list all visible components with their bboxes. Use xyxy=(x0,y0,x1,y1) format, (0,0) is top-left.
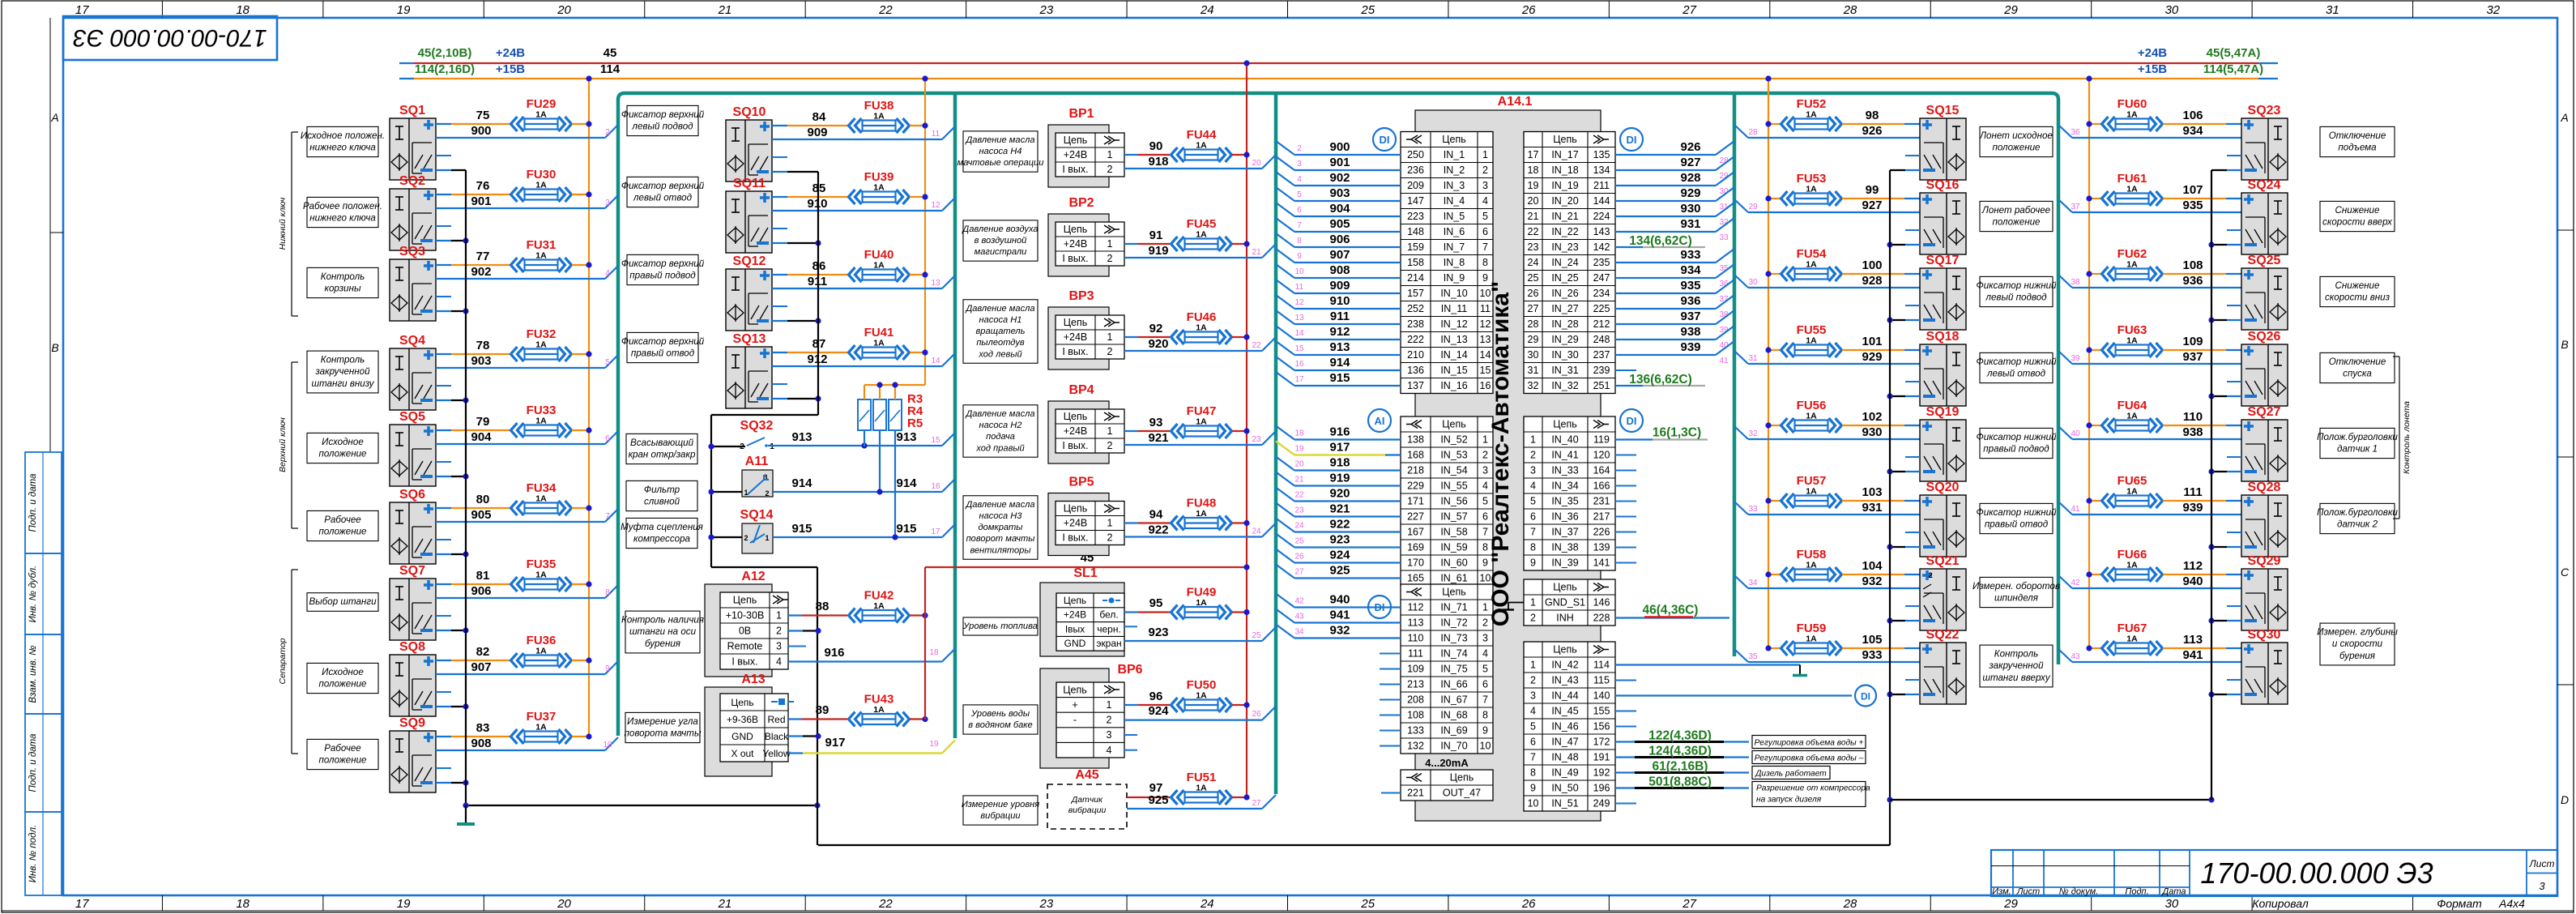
DI marker left xyxy=(1373,128,1396,151)
svg-text:Разрешение от компрессора: Разрешение от компрессора xyxy=(1756,784,1870,793)
svg-text:167: 167 xyxy=(1407,527,1424,538)
wire 907 SQ8 to cable xyxy=(436,660,618,674)
wire R4 to 914 xyxy=(879,430,881,492)
note box SQ14 xyxy=(621,518,703,548)
svg-text:Цепь: Цепь xyxy=(1442,419,1465,430)
svg-text:4: 4 xyxy=(1482,195,1488,207)
svg-text:251: 251 xyxy=(1593,380,1610,391)
svg-text:142: 142 xyxy=(1593,241,1610,253)
svg-text:112: 112 xyxy=(1408,602,1424,613)
svg-text:31: 31 xyxy=(1528,365,1539,376)
svg-text:155: 155 xyxy=(1593,706,1610,717)
svg-text:239: 239 xyxy=(1593,365,1610,376)
fuse FU58 xyxy=(1781,548,1842,582)
svg-text:подача: подача xyxy=(986,432,1015,442)
svg-text:7: 7 xyxy=(1530,752,1536,763)
wire R3 to 913 xyxy=(864,430,865,446)
svg-text:FU35: FU35 xyxy=(527,557,557,571)
A14.1 table IN_40..IN_39 xyxy=(1524,416,1615,570)
svg-text:FU67: FU67 xyxy=(2118,621,2147,635)
svg-text:25: 25 xyxy=(1528,272,1539,284)
svg-text:111: 111 xyxy=(2183,485,2202,499)
wire fuse FU65 feed xyxy=(2086,498,2101,503)
svg-text:FU61: FU61 xyxy=(2118,172,2147,186)
svg-text:датчик 1: датчик 1 xyxy=(2337,444,2378,455)
svg-text:21: 21 xyxy=(1528,211,1539,222)
svg-text:-: - xyxy=(1073,715,1077,726)
svg-text:164: 164 xyxy=(1593,465,1610,476)
svg-text:925: 925 xyxy=(1329,564,1350,578)
svg-text:Дизель работает: Дизель работает xyxy=(1755,769,1827,779)
svg-text:917: 917 xyxy=(825,736,845,750)
wire SQ12 minus xyxy=(772,318,821,323)
svg-text:SQ20: SQ20 xyxy=(1926,480,1960,494)
svg-text:FU45: FU45 xyxy=(1187,217,1217,231)
cable bus vertical 4 xyxy=(1733,93,1737,656)
svg-text:положение: положение xyxy=(1992,143,2041,153)
svg-text:21: 21 xyxy=(1294,476,1304,485)
note box SQ28 xyxy=(2317,503,2398,533)
wire 97 A45 to FU51 xyxy=(1127,781,1170,797)
svg-text:закрученной: закрученной xyxy=(314,366,370,377)
svg-text:920: 920 xyxy=(1329,487,1350,501)
svg-text:IN_25: IN_25 xyxy=(1551,272,1578,284)
svg-text:IN_53: IN_53 xyxy=(1440,450,1467,461)
stub SQ22 mid xyxy=(1905,679,1920,681)
svg-text:ход правый: ход правый xyxy=(975,443,1024,453)
proximity switch SQ10 xyxy=(726,105,772,182)
svg-text:Цепь: Цепь xyxy=(1064,595,1086,606)
svg-text:IN_49: IN_49 xyxy=(1551,767,1578,779)
wire 84 SQ10 to FU38 xyxy=(772,110,847,126)
svg-text:OUT_47: OUT_47 xyxy=(1443,788,1481,799)
svg-text:929: 929 xyxy=(1680,186,1700,200)
svg-text:A13: A13 xyxy=(741,673,765,686)
svg-text:122(4,36D): 122(4,36D) xyxy=(1648,729,1712,743)
svg-text:бурения: бурения xyxy=(645,639,680,649)
svg-text:пылеотдув: пылеотдув xyxy=(976,338,1025,348)
svg-text:214: 214 xyxy=(1407,272,1424,284)
svg-text:929: 929 xyxy=(1862,350,1882,364)
svg-text:83: 83 xyxy=(476,721,490,735)
svg-text:10: 10 xyxy=(1528,798,1539,809)
svg-text:42: 42 xyxy=(1294,597,1304,606)
svg-text:IN_18: IN_18 xyxy=(1551,164,1578,176)
note box SQ23 xyxy=(2320,126,2395,156)
svg-text:38: 38 xyxy=(2071,278,2080,287)
svg-text:7: 7 xyxy=(1482,694,1488,706)
svg-text:Фиксатор верхний: Фиксатор верхний xyxy=(621,336,705,347)
svg-text:169: 169 xyxy=(1407,542,1424,553)
svg-text:Давление масла: Давление масла xyxy=(964,304,1034,314)
note box SQ22 xyxy=(1980,645,2053,687)
svg-text:BP3: BP3 xyxy=(1068,289,1094,303)
angle sensor A13 xyxy=(705,673,794,776)
svg-text:248: 248 xyxy=(1593,334,1610,345)
svg-text:FU52: FU52 xyxy=(1797,97,1827,111)
svg-text:вентиляторы: вентиляторы xyxy=(970,545,1030,555)
wire 85 SQ11 to FU39 xyxy=(772,182,847,197)
svg-text:21: 21 xyxy=(718,897,732,911)
svg-text:917: 917 xyxy=(1329,441,1350,455)
svg-text:34: 34 xyxy=(1748,579,1758,587)
svg-text:933: 933 xyxy=(1862,648,1882,662)
svg-text:18: 18 xyxy=(236,3,249,17)
A14.1 output table IN_17..IN_32 xyxy=(1524,132,1615,394)
svg-text:3: 3 xyxy=(605,199,610,207)
wire A13 GND to GND bus xyxy=(788,733,821,739)
svg-text:IN_26: IN_26 xyxy=(1551,288,1578,299)
svg-text:SQ26: SQ26 xyxy=(2248,330,2281,344)
svg-text:IN_46: IN_46 xyxy=(1551,721,1578,732)
svg-text:213: 213 xyxy=(1407,679,1424,690)
svg-text:FU33: FU33 xyxy=(527,404,557,417)
svg-text:B: B xyxy=(2561,338,2568,351)
chain SQ15-22 xyxy=(1887,170,1892,845)
svg-text:4: 4 xyxy=(1297,175,1302,184)
svg-text:BP6: BP6 xyxy=(1117,663,1142,677)
svg-text:1: 1 xyxy=(776,610,782,621)
note box SQ26 xyxy=(2320,352,2395,382)
svg-text:SQ11: SQ11 xyxy=(733,177,766,190)
svg-text:сливной: сливной xyxy=(644,497,680,507)
wire 919 BP2 to cable xyxy=(1124,244,1276,258)
svg-text:IN_67: IN_67 xyxy=(1440,694,1467,706)
svg-text:Цепь: Цепь xyxy=(733,595,757,606)
fuse FU40 xyxy=(849,248,910,282)
chain SQ23-30 xyxy=(2211,170,2212,800)
svg-text:спуска: спуска xyxy=(2343,369,2372,379)
svg-text:подъема: подъема xyxy=(2338,143,2377,153)
svg-text:2: 2 xyxy=(765,489,769,498)
svg-text:27: 27 xyxy=(1682,897,1696,911)
wire 104 FU58 to SQ21 xyxy=(1842,559,1920,574)
resistor R5 xyxy=(889,399,902,430)
svg-text:Дата: Дата xyxy=(2160,887,2186,897)
svg-text:252: 252 xyxy=(1407,303,1424,314)
svg-text:IN_37: IN_37 xyxy=(1551,527,1578,538)
stub SQ26 mid xyxy=(2227,381,2241,382)
A14.1 table GND_S1 INH xyxy=(1524,579,1615,626)
wire 91 BP2 to FU45 xyxy=(1124,228,1170,244)
svg-text:19: 19 xyxy=(397,897,411,911)
svg-text:поворота мачты: поворота мачты xyxy=(625,728,702,739)
svg-text:SQ21: SQ21 xyxy=(1926,554,1960,568)
svg-text:24: 24 xyxy=(1294,522,1304,531)
cable bus vertical 2 xyxy=(953,93,957,738)
svg-text:913: 913 xyxy=(791,430,812,444)
svg-text:40: 40 xyxy=(2071,429,2080,438)
svg-text:19: 19 xyxy=(929,740,939,749)
svg-text:IN_41: IN_41 xyxy=(1551,450,1578,461)
proximity switch SQ27 xyxy=(2241,405,2288,481)
fuse FU47 xyxy=(1171,404,1232,438)
svg-text:SQ2: SQ2 xyxy=(399,174,425,188)
svg-text:DI: DI xyxy=(1627,415,1637,427)
labels R3 R4 R5 xyxy=(907,392,923,430)
svg-text:96: 96 xyxy=(1149,690,1163,703)
svg-text:штанги вверху: штанги вверху xyxy=(1982,673,2051,683)
wire 103 FU57 to SQ20 xyxy=(1842,485,1920,501)
left document boxes xyxy=(25,452,62,553)
wire 916 A12 to cable xyxy=(788,646,955,662)
svg-text:921: 921 xyxy=(1148,431,1168,445)
svg-text:226: 226 xyxy=(1593,527,1610,538)
svg-text:SQ16: SQ16 xyxy=(1926,178,1960,192)
svg-text:7: 7 xyxy=(605,512,610,521)
svg-text:110: 110 xyxy=(1408,633,1424,644)
wire fuse FU66 feed xyxy=(2086,571,2101,577)
svg-text:IN_74: IN_74 xyxy=(1440,648,1467,660)
svg-text:SQ1: SQ1 xyxy=(399,104,425,117)
svg-text:IN_45: IN_45 xyxy=(1551,706,1578,717)
svg-text:2: 2 xyxy=(776,626,782,637)
svg-text:27: 27 xyxy=(1528,303,1539,314)
svg-text:Рабочее положен.: Рабочее положен. xyxy=(303,201,382,211)
chain SQ10-13 to devices xyxy=(711,172,818,567)
svg-text:9: 9 xyxy=(1297,252,1302,261)
wire SQ30 minus xyxy=(2208,691,2241,697)
svg-text:36: 36 xyxy=(2071,128,2080,137)
wire 80 SQ6 to FU34 xyxy=(436,493,511,508)
stub SQ23 mid xyxy=(2227,155,2241,156)
wire SQ10 minus xyxy=(772,171,818,173)
wire 909 SQ10 to cable xyxy=(772,126,955,139)
svg-text:положение: положение xyxy=(318,449,367,459)
svg-text:левый отвод: левый отвод xyxy=(1986,369,2046,379)
svg-text:Копировал: Копировал xyxy=(2252,897,2309,910)
svg-text:+9-36В: +9-36В xyxy=(727,714,758,725)
svg-text:IN_6: IN_6 xyxy=(1444,226,1465,237)
wire SQ29 minus xyxy=(2208,617,2241,623)
proximity switch SQ5 xyxy=(390,410,436,486)
svg-text:24: 24 xyxy=(1252,527,1261,536)
DI marker right xyxy=(1620,128,1643,151)
svg-text:1: 1 xyxy=(1107,331,1113,343)
wire 932 cable to SQ21 xyxy=(1734,574,1920,588)
wire IN_47 122(4,36D) xyxy=(1615,729,1749,743)
wire 81 SQ7 to FU35 xyxy=(436,569,511,584)
svg-text:SQ17: SQ17 xyxy=(1926,254,1960,267)
svg-text:IN_66: IN_66 xyxy=(1440,679,1467,690)
svg-text:правый подвод: правый подвод xyxy=(629,271,696,281)
svg-text:916: 916 xyxy=(824,646,844,660)
wire FU36 to +15V bus xyxy=(572,657,592,663)
svg-text:938: 938 xyxy=(1680,325,1700,339)
svg-text:FU58: FU58 xyxy=(1797,548,1827,562)
svg-text:26: 26 xyxy=(1521,3,1536,17)
note box BP2 xyxy=(961,220,1038,261)
fuse FU44 xyxy=(1171,128,1232,162)
svg-text:Цепь: Цепь xyxy=(1450,772,1474,784)
wire FU32 to +15V bus xyxy=(572,351,592,357)
svg-text:222: 222 xyxy=(1407,334,1424,345)
svg-text:BP4: BP4 xyxy=(1068,383,1094,397)
wire 102 FU56 to SQ19 xyxy=(1842,410,1920,425)
svg-text:212: 212 xyxy=(1593,318,1610,330)
svg-text:900: 900 xyxy=(471,124,491,138)
svg-text:IN_23: IN_23 xyxy=(1551,241,1578,253)
svg-text:78: 78 xyxy=(476,339,490,352)
stub SQ9 mid xyxy=(436,767,451,769)
svg-text:144: 144 xyxy=(1593,195,1610,207)
svg-text:146: 146 xyxy=(1593,597,1610,609)
svg-text:GND_S1: GND_S1 xyxy=(1545,597,1585,609)
proximity switch SQ8 xyxy=(390,640,436,716)
svg-text:941: 941 xyxy=(2182,648,2203,662)
proximity switch SQ18 xyxy=(1920,330,1966,406)
wire 96 BP6 to FU50 xyxy=(1124,690,1170,705)
stub SQ24 mid xyxy=(2227,229,2241,231)
svg-text:16(1,3С): 16(1,3С) xyxy=(1653,426,1701,440)
fuse FU52 xyxy=(1781,97,1842,131)
wire fuse FU61 feed xyxy=(2086,195,2101,201)
wire 940 cable to SQ29 xyxy=(2058,574,2241,588)
note box A11 xyxy=(626,480,697,510)
wire SQ32 pin2 to chain xyxy=(708,443,745,449)
svg-text:ход левый: ход левый xyxy=(978,349,1021,359)
svg-text:22: 22 xyxy=(1252,341,1261,350)
cable bus vertical 3 xyxy=(1274,93,1278,794)
svg-text:6: 6 xyxy=(1482,679,1488,690)
svg-text:28: 28 xyxy=(1843,897,1857,911)
svg-text:I вых.: I вых. xyxy=(1062,440,1088,451)
note box SQ19 xyxy=(1977,428,2058,458)
svg-text:+24В: +24В xyxy=(496,46,525,60)
svg-text:IN_34: IN_34 xyxy=(1551,480,1578,492)
svg-text:Лист: Лист xyxy=(2016,887,2040,897)
svg-text:28: 28 xyxy=(1843,3,1857,17)
stub SQ30 mid xyxy=(2227,679,2241,681)
fuse FU35 xyxy=(511,557,572,592)
svg-text:918: 918 xyxy=(1329,456,1350,470)
svg-text:930: 930 xyxy=(1680,202,1700,216)
svg-text:IN_13: IN_13 xyxy=(1440,334,1467,345)
svg-text:228: 228 xyxy=(1593,613,1610,624)
fuse FU64 xyxy=(2102,399,2163,433)
svg-text:IN_75: IN_75 xyxy=(1440,664,1467,675)
svg-text:FU37: FU37 xyxy=(527,710,557,724)
GND bus vertical xyxy=(817,567,818,845)
fuse FU29 xyxy=(511,97,572,131)
svg-text:16: 16 xyxy=(1294,360,1304,369)
wire 111 FU65 to SQ28 xyxy=(2163,485,2241,501)
svg-text:2: 2 xyxy=(1928,571,1932,580)
wire FU49 to red bus xyxy=(1232,609,1250,615)
svg-text:10: 10 xyxy=(1294,267,1304,276)
svg-text:7: 7 xyxy=(1482,241,1488,253)
svg-text:Взам. инв. №: Взам. инв. № xyxy=(28,645,38,703)
note box SQ24 xyxy=(2320,201,2395,231)
wire 936 cable to SQ25 xyxy=(2058,274,2241,288)
svg-text:2: 2 xyxy=(1107,440,1113,451)
A14.1 table IN_42..IN_51 xyxy=(1524,642,1615,811)
wire R5 to 915 xyxy=(894,430,896,537)
svg-text:914: 914 xyxy=(896,476,917,490)
wire 941 cable to SQ30 xyxy=(2058,648,2241,662)
svg-text:Лонет исходное: Лонет исходное xyxy=(1979,130,2053,141)
cable bus left edge xyxy=(618,93,2058,736)
svg-text:231: 231 xyxy=(1593,496,1610,507)
fuse FU66 xyxy=(2102,548,2163,582)
svg-text:19: 19 xyxy=(1528,180,1539,191)
svg-text:924: 924 xyxy=(1148,704,1169,718)
group bracket lower key xyxy=(278,132,298,316)
svg-text:42: 42 xyxy=(2071,579,2080,587)
svg-text:IN_24: IN_24 xyxy=(1551,257,1578,268)
svg-text:№ докум.: № докум. xyxy=(2059,887,2098,897)
fuse FU56 xyxy=(1781,399,1842,433)
svg-text:100: 100 xyxy=(1862,258,1882,272)
svg-text:SQ14: SQ14 xyxy=(740,508,774,522)
proximity switch SQ12 xyxy=(726,254,772,331)
stub IN_46 xyxy=(1615,726,1636,728)
svg-text:13: 13 xyxy=(1294,314,1304,322)
svg-text:928: 928 xyxy=(1680,171,1700,185)
svg-text:132: 132 xyxy=(1407,741,1424,752)
svg-text:20: 20 xyxy=(1252,159,1261,168)
fuse FU46 xyxy=(1171,310,1232,344)
svg-text:BP5: BP5 xyxy=(1068,476,1094,489)
wire FU34 to +15V bus xyxy=(572,505,592,510)
proximity switch SQ23 xyxy=(2241,104,2288,180)
svg-text:17: 17 xyxy=(1294,375,1304,384)
wire 87 SQ13 to FU41 xyxy=(772,337,847,352)
svg-text:Цепь: Цепь xyxy=(1553,134,1576,145)
svg-text:Давление масла: Давление масла xyxy=(964,500,1034,510)
svg-text:119: 119 xyxy=(1593,434,1610,446)
svg-text:136: 136 xyxy=(1407,365,1424,376)
svg-text:103: 103 xyxy=(1862,485,1882,499)
wire IN_48 124(4,36D) xyxy=(1615,745,1749,758)
svg-text:Полож.бурголовки: Полож.бурголовки xyxy=(2317,507,2398,518)
wire SQ11 minus xyxy=(772,240,821,246)
svg-text:IN_32: IN_32 xyxy=(1551,380,1578,391)
svg-text:A14.1: A14.1 xyxy=(1498,95,1533,109)
svg-text:кран откр/закр: кран откр/закр xyxy=(629,450,696,460)
proximity switch SQ22 xyxy=(1920,628,1966,704)
wire chain link xyxy=(1890,797,2215,802)
svg-text:IN_55: IN_55 xyxy=(1440,480,1467,492)
svg-text:2: 2 xyxy=(1530,450,1536,461)
svg-text:правый подвод: правый подвод xyxy=(1983,444,2049,455)
svg-text:A12: A12 xyxy=(741,570,765,583)
wire 93 BP4 to FU47 xyxy=(1124,416,1170,431)
svg-text:4: 4 xyxy=(1482,648,1488,660)
svg-text:238: 238 xyxy=(1407,318,1424,330)
svg-text:Инв. № подл.: Инв. № подл. xyxy=(28,825,38,882)
wire 923 SL1 to cable xyxy=(1124,626,1276,641)
wire fuse FU52 feed xyxy=(1765,121,1781,126)
svg-text:Исходное положен.: Исходное положен. xyxy=(301,130,385,141)
svg-text:104: 104 xyxy=(1862,559,1883,573)
svg-text:скорости вверх: скорости вверх xyxy=(2322,217,2393,228)
svg-text:234: 234 xyxy=(1593,288,1610,299)
svg-text:937: 937 xyxy=(1680,310,1700,323)
svg-text:906: 906 xyxy=(1329,233,1350,246)
svg-text:934: 934 xyxy=(2182,124,2203,138)
svg-text:109: 109 xyxy=(1407,664,1424,675)
svg-text:935: 935 xyxy=(2182,199,2203,212)
note box A45 xyxy=(962,796,1039,825)
svg-text:82: 82 xyxy=(476,645,490,659)
svg-text:905: 905 xyxy=(471,508,491,522)
svg-text:913: 913 xyxy=(1329,340,1350,354)
wire 938 cable to SQ27 xyxy=(2058,425,2241,439)
svg-text:IN_52: IN_52 xyxy=(1440,434,1467,446)
svg-text:Уровень топлива: Уровень топлива xyxy=(962,621,1038,631)
svg-text:114: 114 xyxy=(1593,660,1610,671)
